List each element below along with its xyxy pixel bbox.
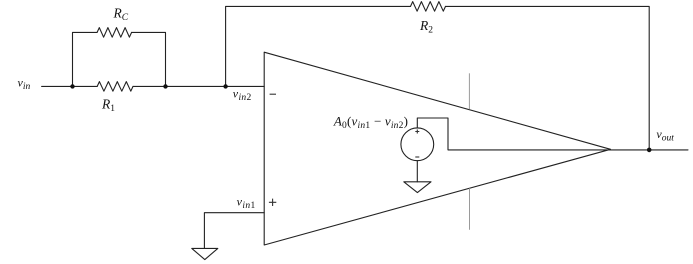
svg-text:R2: R2	[419, 18, 433, 36]
svg-text:A0(vin1 − vin2): A0(vin1 − vin2)	[333, 113, 408, 131]
svg-text:vin: vin	[18, 76, 31, 93]
svg-text:vin2: vin2	[233, 87, 252, 104]
svg-text:R1: R1	[101, 96, 115, 114]
svg-text:vout: vout	[656, 127, 674, 144]
svg-text:vin1: vin1	[237, 194, 256, 211]
svg-text:RC: RC	[113, 6, 129, 24]
